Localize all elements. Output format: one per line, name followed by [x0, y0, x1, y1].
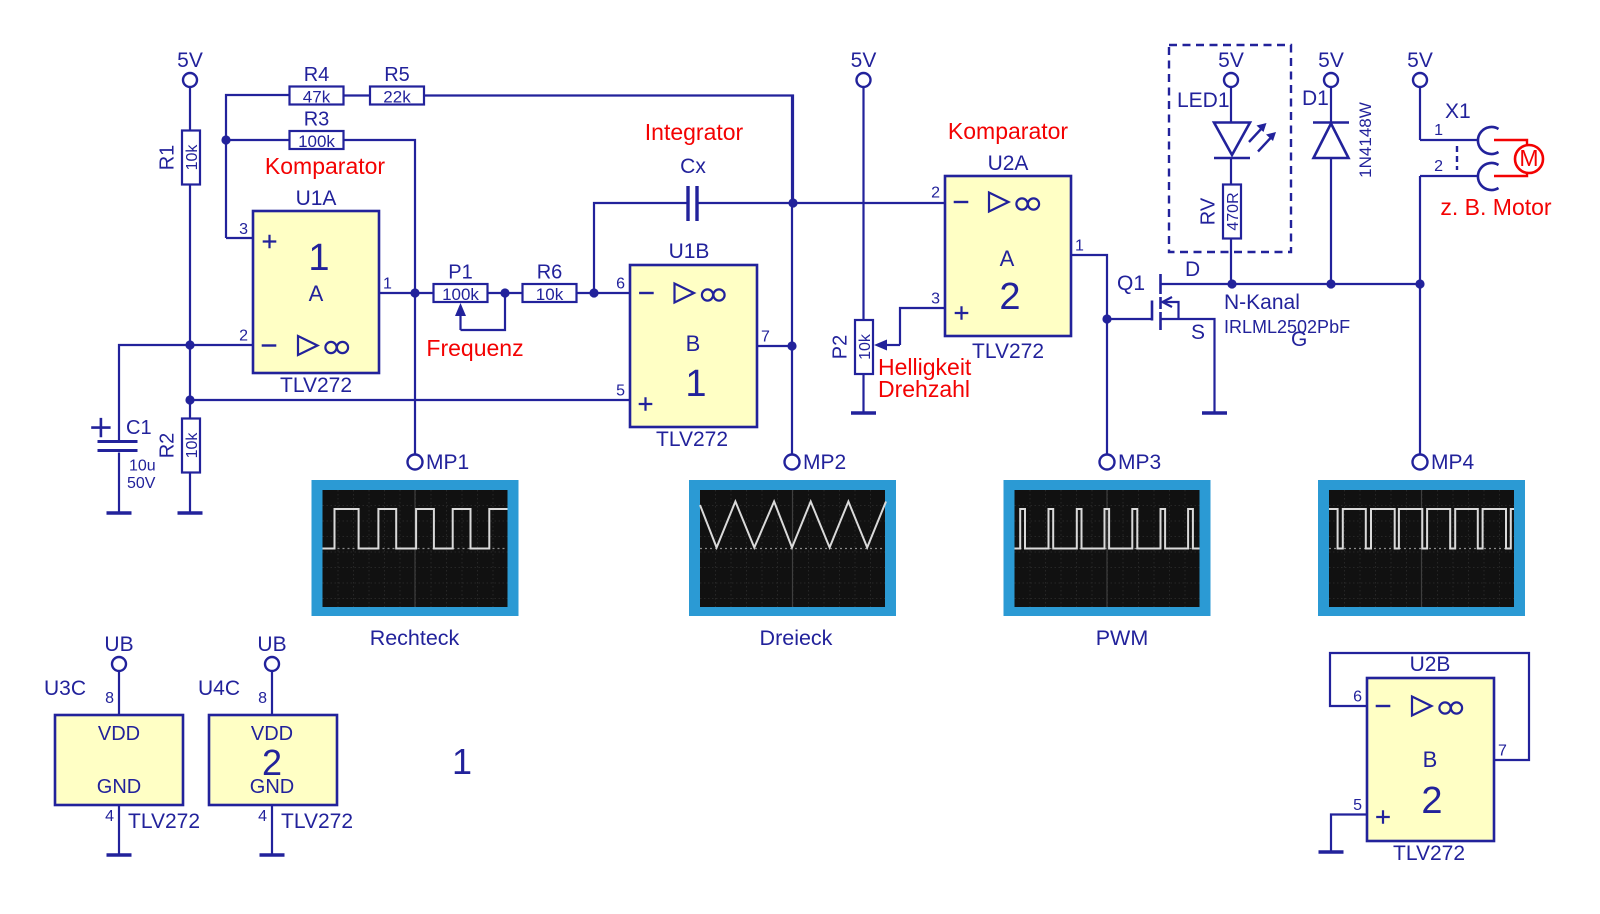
svg-text:N-Kanal: N-Kanal: [1224, 291, 1300, 314]
resistor R6: [523, 262, 577, 305]
resistor R4: [290, 64, 344, 107]
transistor Q1: [1117, 258, 1307, 351]
capacitor Cx: [680, 155, 706, 221]
wire node to R3: [226, 139, 289, 141]
ground U2B: [1319, 850, 1344, 853]
wire U2A out to MP3: [1071, 255, 1107, 454]
svg-text:2: 2: [931, 185, 940, 202]
wire RV to drain bus: [1230, 239, 1232, 285]
svg-text:10k: 10k: [857, 333, 874, 360]
ground U3C: [107, 853, 132, 856]
svg-text:5V: 5V: [1218, 49, 1244, 72]
svg-text:U4C: U4C: [198, 677, 240, 700]
svg-text:B: B: [686, 331, 701, 356]
svg-text:2: 2: [239, 328, 248, 345]
wire gate: [1107, 318, 1152, 320]
wire source to ground: [1161, 319, 1215, 413]
svg-text:C1: C1: [126, 417, 152, 439]
svg-text:4: 4: [105, 808, 114, 825]
resistor P2: [830, 320, 875, 374]
svg-text:A: A: [309, 281, 324, 306]
svg-text:47k: 47k: [303, 88, 331, 107]
svg-text:GND: GND: [250, 776, 294, 798]
node junction R1/pin2/C1: [185, 340, 194, 349]
wire Cx to U2A pin2: [697, 202, 945, 204]
power symbol UB at (119,664): [104, 633, 133, 671]
svg-text:8: 8: [258, 690, 267, 707]
svg-text:5V: 5V: [1318, 49, 1344, 72]
wire node to R2: [189, 400, 191, 419]
svg-text:50V: 50V: [127, 475, 156, 492]
oscilloscope screen MP4 inverted PWM: [1318, 480, 1525, 616]
svg-text:22k: 22k: [383, 88, 411, 107]
svg-text:Frequenz: Frequenz: [426, 335, 523, 361]
wire X1 pin2 down: [1419, 176, 1421, 284]
svg-text:6: 6: [1353, 689, 1362, 706]
test point MP3: [1100, 451, 1162, 474]
node junction pin1/R3: [410, 288, 419, 297]
svg-text:7: 7: [761, 329, 770, 346]
svg-text:D: D: [1185, 258, 1200, 281]
svg-text:4: 4: [258, 808, 267, 825]
svg-text:MP3: MP3: [1118, 451, 1161, 474]
svg-text:3: 3: [931, 291, 940, 308]
svg-text:Komparator: Komparator: [948, 118, 1069, 144]
power symbol 5V at (1331,80): [1318, 49, 1344, 87]
resistor R5: [370, 64, 424, 107]
svg-text:10k: 10k: [184, 144, 201, 171]
op-amp U2B: [1353, 653, 1507, 865]
svg-text:8: 8: [105, 690, 114, 707]
svg-text:100k: 100k: [442, 285, 479, 304]
P2 wiper arrow: [874, 340, 900, 351]
wire drain bus: [1161, 283, 1421, 285]
svg-text:Rechteck: Rechteck: [370, 626, 460, 650]
svg-text:470R: 470R: [1225, 192, 1242, 230]
test point MP2: [785, 451, 847, 474]
wire 5V to LED1: [1230, 88, 1232, 123]
wire C1 to ground: [118, 453, 120, 514]
svg-text:1N4148W: 1N4148W: [1356, 102, 1375, 178]
svg-text:R4: R4: [304, 64, 330, 86]
P1 wiper arrow: [455, 303, 466, 330]
svg-text:1: 1: [685, 363, 706, 405]
wire UB to U3C pin8: [118, 671, 120, 715]
svg-text:R6: R6: [537, 262, 563, 284]
resistor R1: [157, 131, 202, 185]
svg-text:U2B: U2B: [1410, 653, 1451, 676]
oscilloscope screen MP2 Dreieck: [689, 480, 896, 616]
svg-text:1: 1: [383, 276, 392, 293]
svg-text:A: A: [1000, 246, 1015, 271]
wire R1 to node pin2: [189, 185, 191, 346]
svg-text:6: 6: [616, 276, 625, 293]
svg-text:Drehzahl: Drehzahl: [878, 376, 970, 402]
svg-text:1: 1: [452, 741, 472, 782]
svg-text:P1: P1: [448, 262, 472, 284]
ground P2: [851, 411, 876, 414]
svg-text:Integrator: Integrator: [645, 119, 744, 145]
wire divider to U1B pin5: [190, 399, 630, 401]
svg-text:P2: P2: [830, 335, 852, 359]
svg-text:3: 3: [239, 221, 248, 238]
svg-text:100k: 100k: [298, 132, 335, 151]
svg-text:10u: 10u: [129, 458, 156, 475]
svg-text:R5: R5: [384, 64, 410, 86]
wire U1A output to P1: [379, 292, 433, 294]
wire pin 3 stub U1A: [226, 237, 253, 239]
wire R4 to R5: [344, 94, 371, 96]
oscilloscope screen MP3 PWM: [1004, 480, 1211, 616]
svg-text:Q1: Q1: [1117, 272, 1145, 295]
svg-text:TLV272: TLV272: [1393, 842, 1465, 865]
svg-text:X1: X1: [1445, 100, 1471, 123]
svg-text:5V: 5V: [851, 49, 877, 72]
svg-text:1: 1: [308, 237, 329, 279]
svg-text:10k: 10k: [536, 285, 564, 304]
svg-text:R1: R1: [157, 145, 179, 171]
power symbol 5V at (190,80): [177, 49, 203, 87]
ground Q1 source: [1202, 411, 1227, 414]
power symbol 5V at (863.5,80): [851, 49, 877, 87]
resistor RV: [1198, 185, 1243, 239]
svg-text:PWM: PWM: [1096, 626, 1149, 650]
wire X1 pin 2: [1420, 175, 1478, 177]
svg-text:U1A: U1A: [296, 187, 337, 210]
oscilloscope screen MP1 Rechteck: [312, 480, 519, 616]
wire wiper to U2A pin3: [900, 308, 945, 345]
wire node to Cx: [594, 203, 687, 293]
wire 5V to P2: [862, 88, 864, 321]
wire MP2 riser: [791, 96, 793, 455]
svg-text:U2A: U2A: [988, 152, 1029, 175]
svg-text:S: S: [1191, 321, 1205, 344]
svg-text:5: 5: [616, 383, 625, 400]
power symbol 5V at (1420,80): [1407, 49, 1433, 87]
svg-text:D1: D1: [1302, 87, 1329, 110]
svg-text:GND: GND: [97, 776, 141, 798]
svg-text:2: 2: [999, 276, 1020, 318]
ground U4C: [260, 853, 285, 856]
node junction R2/pin5: [185, 395, 194, 404]
wire 5V to X1 pin1: [1419, 88, 1421, 141]
node junction X1 branch: [1415, 279, 1424, 288]
resistor R2: [157, 419, 202, 473]
wire LED1 to RV: [1230, 158, 1232, 185]
ground C1: [107, 511, 132, 514]
svg-text:LED1: LED1: [1177, 89, 1230, 112]
wire U4C pin4 to ground: [271, 805, 273, 855]
node junction D1 branch: [1326, 279, 1335, 288]
wire 5V to D1: [1330, 88, 1332, 123]
wire R6 to U1B pin6: [577, 292, 631, 294]
svg-text:TLV272: TLV272: [656, 428, 728, 451]
svg-text:M: M: [1519, 145, 1538, 171]
svg-text:TLV272: TLV272: [281, 810, 353, 833]
test point MP1: [408, 451, 470, 474]
wire R5 to Cx node: [424, 96, 793, 204]
wire 5V to R1: [189, 88, 191, 132]
resistor R3: [290, 109, 344, 152]
wire R2 to ground: [189, 473, 191, 514]
wire X1 pin 1: [1420, 139, 1478, 141]
svg-text:MP2: MP2: [803, 451, 846, 474]
op-amp U2A: [931, 152, 1084, 363]
node junction Cx/R5/MP2 riser: [788, 198, 797, 207]
wire U2B pin5 to ground: [1331, 815, 1367, 853]
wire U2B feedback: [1330, 653, 1529, 760]
svg-text:UB: UB: [104, 633, 133, 656]
op-amp U1B: [616, 240, 770, 451]
svg-text:R3: R3: [304, 109, 330, 131]
power symbol UB at (272,664): [257, 633, 286, 671]
svg-text:5V: 5V: [177, 49, 203, 72]
svg-text:MP1: MP1: [426, 451, 469, 474]
ground R2: [178, 511, 203, 514]
op-amp U1A: [239, 187, 392, 397]
wire R3 to pin1 node: [344, 140, 416, 293]
wire wiper to node: [461, 293, 506, 330]
svg-text:U3C: U3C: [44, 677, 86, 700]
svg-text:B: B: [1423, 747, 1438, 772]
svg-text:5V: 5V: [1407, 49, 1433, 72]
wire UB to U4C pin8: [271, 671, 273, 715]
wire pin 2 stub U1A: [190, 344, 253, 346]
node junction gate/MP3: [1102, 314, 1111, 323]
wire U3C pin4 to ground: [118, 805, 120, 855]
svg-text:TLV272: TLV272: [280, 374, 352, 397]
dashed option box: [1169, 45, 1291, 252]
power symbol 5V at (1231,80): [1218, 49, 1244, 87]
svg-text:RV: RV: [1198, 197, 1220, 225]
node junction LED branch: [1227, 279, 1236, 288]
svg-text:TLV272: TLV272: [128, 810, 200, 833]
wire P1 to R6: [488, 292, 523, 294]
svg-text:10k: 10k: [184, 432, 201, 459]
motor M: [1494, 140, 1543, 176]
wire pin3 riser to R4: [226, 95, 289, 238]
svg-text:R2: R2: [157, 433, 179, 459]
wire node pin2 to C1: [119, 345, 190, 441]
wire U1B pin7 out: [757, 345, 792, 347]
svg-text:1: 1: [1434, 122, 1443, 139]
test point MP4: [1413, 451, 1475, 474]
capacitor C1: [91, 417, 156, 492]
wire P2 to ground: [862, 374, 864, 413]
svg-text:1: 1: [1075, 238, 1084, 255]
svg-text:TLV272: TLV272: [972, 340, 1044, 363]
svg-text:VDD: VDD: [98, 723, 140, 745]
resistor P1: [434, 262, 488, 305]
wire D1 to drain bus: [1330, 158, 1332, 284]
wire MP1 riser: [414, 293, 416, 454]
power pins U3C: [44, 677, 200, 833]
svg-text:U1B: U1B: [669, 240, 710, 263]
svg-text:Komparator: Komparator: [265, 153, 386, 179]
svg-text:UB: UB: [257, 633, 286, 656]
svg-text:MP4: MP4: [1431, 451, 1475, 474]
LED LED1: [1177, 89, 1276, 158]
svg-text:z. B. Motor: z. B. Motor: [1440, 194, 1552, 220]
svg-text:IRLML2502PbF: IRLML2502PbF: [1224, 317, 1350, 337]
node junction R6/Cx: [589, 288, 598, 297]
svg-text:Cx: Cx: [680, 155, 706, 178]
svg-text:7: 7: [1498, 743, 1507, 760]
node junction R3/R4 branch: [221, 135, 230, 144]
connector X1: [1434, 100, 1498, 190]
svg-text:5: 5: [1353, 797, 1362, 814]
power pins U4C: [198, 677, 353, 833]
node junction P1 wiper: [500, 288, 509, 297]
svg-text:2: 2: [1421, 780, 1442, 822]
diode D1: [1302, 87, 1375, 178]
svg-text:Dreieck: Dreieck: [760, 626, 833, 650]
node junction pin7/MP2: [787, 341, 796, 350]
wire MP4 riser: [1419, 284, 1421, 454]
svg-text:2: 2: [1434, 158, 1443, 175]
wire node to node R2: [189, 345, 191, 400]
